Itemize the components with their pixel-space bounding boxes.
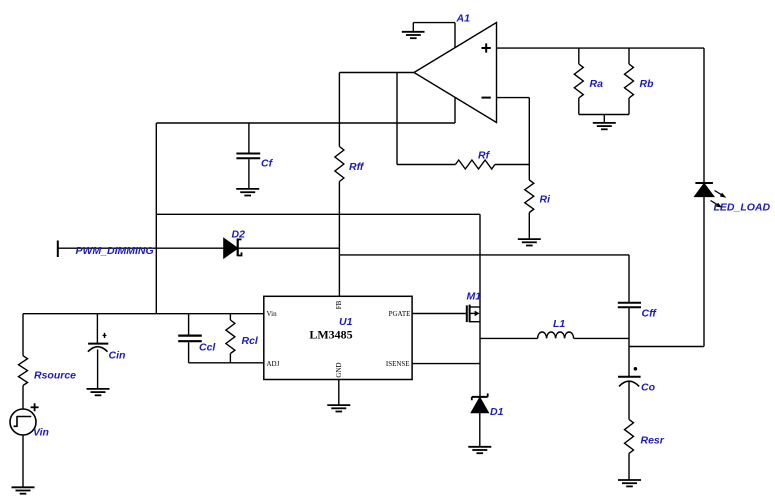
wire Rf row (397, 164, 455, 166)
PWM_DIMMING port (57, 241, 59, 258)
resistor Rsource (19, 314, 28, 409)
op-amp plus input marker (482, 43, 491, 52)
wire left Vin rail vertical (155, 123, 157, 314)
svg-text:Cin: Cin (109, 350, 126, 362)
capacitor Cf (236, 123, 260, 189)
wire drain feed row (156, 213, 480, 215)
ground Cin (87, 389, 110, 395)
svg-text:Cf: Cf (261, 158, 274, 170)
wire GND pin stem (338, 380, 340, 405)
svg-text:GND: GND (335, 362, 343, 377)
wire A1 bottom power stub (454, 97, 456, 123)
svg-text:Ra: Ra (590, 78, 604, 90)
wire ADJ row (189, 362, 264, 364)
svg-text:Ri: Ri (540, 194, 552, 206)
svg-text:Rf: Rf (478, 150, 491, 162)
op-amp A1 (414, 23, 497, 123)
resistor Ra (578, 48, 580, 64)
ground D1 (468, 447, 491, 453)
resistor Rff (335, 73, 344, 297)
capacitor Ccl (178, 314, 202, 363)
wire minus input down (528, 98, 530, 165)
capacitor Cff (618, 303, 641, 376)
svg-text:Vin: Vin (33, 427, 49, 439)
wire PGATE (412, 313, 467, 315)
svg-text:Rcl: Rcl (242, 335, 259, 347)
LED_LOAD diode (695, 183, 727, 347)
op-amp U1/A1 ground (402, 23, 425, 39)
svg-text:ISENSE: ISENSE (386, 360, 410, 368)
ground Vin (12, 487, 35, 493)
resistor Rf (455, 160, 494, 169)
wire top row (Vin rail top) (156, 122, 455, 124)
op-amp minus input marker (482, 97, 491, 99)
wire right rail upper (703, 48, 705, 183)
resistor Resr (625, 419, 634, 479)
wire A1 top power stub (454, 23, 456, 48)
svg-text:L1: L1 (553, 318, 565, 330)
svg-text:Rb: Rb (640, 78, 655, 90)
svg-text:LED_LOAD: LED_LOAD (714, 202, 771, 214)
wire Co node to right rail (629, 346, 704, 348)
svg-text:A1: A1 (456, 13, 471, 25)
svg-text:Resr: Resr (641, 435, 665, 447)
IC U1 LM3485 box (264, 296, 412, 379)
svg-text:Cff: Cff (642, 308, 658, 320)
ground Resr (618, 480, 641, 486)
inductor L1 (480, 332, 629, 338)
ground U1 (327, 405, 350, 411)
svg-text:Ccl: Ccl (199, 342, 216, 354)
transistor M1 (467, 305, 480, 323)
svg-text:ADJ: ADJ (267, 360, 280, 368)
svg-text:LM3485: LM3485 (309, 328, 352, 342)
wire op-amp output (339, 72, 414, 74)
wire Ra Rb bottom (579, 114, 629, 116)
resistor Ri (528, 165, 530, 181)
wire plus input to top-right (497, 47, 705, 49)
diode D1 (schottky) (471, 393, 488, 446)
wire down to Cff (628, 255, 630, 302)
ground Cf (236, 189, 259, 196)
ground Ri (518, 239, 541, 245)
source Vin (10, 403, 39, 487)
svg-text:D1: D1 (490, 406, 504, 418)
wire Vin row (23, 313, 264, 315)
capacitor Co (polarized) (618, 367, 641, 419)
resistor Rb (628, 48, 630, 64)
svg-text:D2: D2 (232, 228, 246, 240)
svg-text:M1: M1 (467, 291, 482, 303)
svg-text:PGATE: PGATE (389, 310, 411, 318)
svg-text:Rsource: Rsource (34, 370, 76, 382)
svg-text:Co: Co (641, 382, 656, 394)
wire A1 ground to power pin (413, 22, 455, 24)
diode D2 (224, 239, 242, 258)
svg-text:Rff: Rff (349, 161, 365, 173)
resistor Rcl (226, 314, 235, 363)
capacitor Cin (polarized) (88, 314, 108, 389)
wire ISENSE (412, 363, 480, 365)
svg-text:PWM_DIMMING: PWM_DIMMING (76, 245, 154, 257)
svg-text:Vin: Vin (267, 310, 278, 318)
svg-text:U1: U1 (339, 316, 353, 328)
wire minus input (497, 97, 530, 99)
wire PWM row (58, 247, 340, 249)
wire M1/D1 vertical (479, 214, 481, 397)
wire FB row right (339, 254, 629, 256)
ground Ra Rb (593, 115, 616, 130)
wire output to Rf branch (396, 73, 398, 165)
svg-text:FB: FB (335, 300, 343, 309)
